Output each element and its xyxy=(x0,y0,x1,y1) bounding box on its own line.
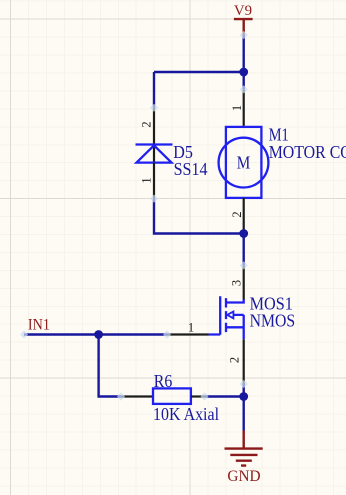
svg-text:1: 1 xyxy=(230,105,244,111)
pin 1 lead of R6 xyxy=(121,395,153,397)
junction at IN1/R6 branch xyxy=(94,330,103,339)
label M1 xyxy=(269,124,289,144)
net GND label xyxy=(227,468,260,485)
svg-text:R6: R6 xyxy=(154,371,173,391)
junction at V9 branch xyxy=(239,68,248,77)
value label MOTOR CONN xyxy=(269,142,346,162)
pin number 2 (M1) xyxy=(230,211,244,217)
label MOS1 xyxy=(250,294,293,314)
pin 1 lead of D5 xyxy=(153,163,155,199)
svg-text:2: 2 xyxy=(140,121,154,127)
label D5 xyxy=(173,142,193,162)
ground symbol GND xyxy=(225,431,263,466)
pin 2 lead of D5 xyxy=(153,108,155,164)
junction at motor/diode bottom xyxy=(239,229,248,238)
value label SS14 xyxy=(174,159,208,179)
svg-text:10K Axial: 10K Axial xyxy=(153,404,219,424)
wire endpoint markers xyxy=(20,31,248,401)
wire V9 stub xyxy=(242,35,244,72)
pin 3 lead of MOS1 xyxy=(243,265,245,299)
svg-text:1: 1 xyxy=(188,320,194,334)
pin number 2 (MOS1) xyxy=(228,357,242,363)
svg-text:MOTOR CONN: MOTOR CONN xyxy=(269,142,346,162)
value label NMOS xyxy=(250,310,296,330)
pin 1 lead of M1 xyxy=(243,89,245,126)
pin 2 lead of M1 xyxy=(243,198,245,234)
pin 2 lead of R6 xyxy=(191,395,205,397)
wire top horizontal to diode branch xyxy=(154,71,244,73)
junction at source/R6/GND xyxy=(239,392,248,401)
power symbol V9 bar xyxy=(234,19,253,35)
svg-text:M: M xyxy=(237,153,251,173)
svg-text:V9: V9 xyxy=(234,3,252,19)
wire source to bottom junction xyxy=(242,384,244,397)
wire motor branch from junction xyxy=(242,72,244,89)
resistor R6 xyxy=(153,388,191,404)
svg-text:3: 3 xyxy=(229,280,243,286)
pin 2 lead of MOS1 source xyxy=(243,339,245,384)
pin number 1 (MOS1) xyxy=(188,320,194,334)
transistor MOS1 NMOS xyxy=(209,296,244,339)
pin number 3 (MOS1) xyxy=(229,280,243,286)
wire R6 to bottom junction xyxy=(205,395,244,397)
svg-text:SS14: SS14 xyxy=(174,159,208,179)
pin 1 lead of MOS1 gate xyxy=(167,333,209,335)
svg-text:2: 2 xyxy=(228,357,242,363)
wire junction to MOSFET drain xyxy=(242,234,244,266)
net V9 power label xyxy=(234,3,252,19)
motor M1 body xyxy=(219,127,269,198)
pin number 2 (D5) xyxy=(140,121,154,127)
label R6 xyxy=(154,371,173,391)
svg-text:2: 2 xyxy=(230,211,244,217)
svg-text:1: 1 xyxy=(140,177,154,183)
wire IN1 to gate xyxy=(24,333,167,335)
wire diode bottom to junction xyxy=(154,199,244,234)
wire junction to GND xyxy=(242,397,244,431)
wire diode branch down xyxy=(153,72,155,108)
svg-text:NMOS: NMOS xyxy=(250,310,296,330)
value label 10K Axial xyxy=(153,404,219,424)
pin number 1 (M1) xyxy=(230,105,244,111)
svg-text:GND: GND xyxy=(227,468,260,485)
svg-text:IN1: IN1 xyxy=(28,317,50,334)
pin number 1 (D5) xyxy=(140,177,154,183)
net IN1 label xyxy=(28,317,50,334)
wire R6 branch down and right xyxy=(99,335,121,397)
diode D5 xyxy=(136,145,173,163)
